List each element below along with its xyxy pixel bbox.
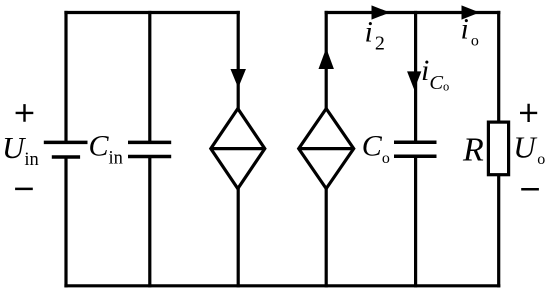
resistor R body [488,122,508,175]
source Uin bottom plate [52,155,80,159]
arrowhead right (current i2) [372,6,389,19]
wire branch Co lower [414,156,417,287]
label minus (Uo) [521,188,539,191]
dependent source 2 diamond [299,109,354,189]
dependent source 1 diamond [211,109,265,189]
wire branch R lower [497,174,500,287]
label + (Uo) [520,104,537,122]
wire top-right bus [325,11,501,14]
label minus (Uin) [15,188,33,191]
wire branch Co upper [414,11,417,141]
svg-text:R: R [462,131,484,168]
wire bottom bus [64,284,500,287]
wire branch dependent-source-2 lower [325,188,328,287]
dependent source 2 chord [299,147,354,150]
wire branch Uin upper [64,11,67,141]
wire branch Cin upper [148,11,151,141]
capacitor Co bottom plate [394,154,437,158]
wire branch dependent-source-2 upper [325,11,328,110]
dependent source 1 chord [211,147,265,150]
label + (Uin) [16,104,34,122]
capacitor Co top plate [394,141,437,145]
wire branch R upper [497,11,500,123]
wire top-left bus [64,11,239,14]
wire branch dependent-source-1 lower [237,188,240,287]
wire branch dependent-source-1 upper [237,11,240,110]
capacitor Cin bottom plate [128,155,171,159]
wire branch Cin lower [148,157,151,288]
capacitor Cin top plate [128,141,171,145]
source Uin top plate [44,141,88,145]
arrowhead up (source 2 current) [319,50,333,69]
arrowhead right (current io) [462,6,478,19]
arrowhead down (current iCo) [408,72,421,88]
wire branch Uin lower [64,157,67,287]
arrowhead down (into source 1) [231,70,245,87]
